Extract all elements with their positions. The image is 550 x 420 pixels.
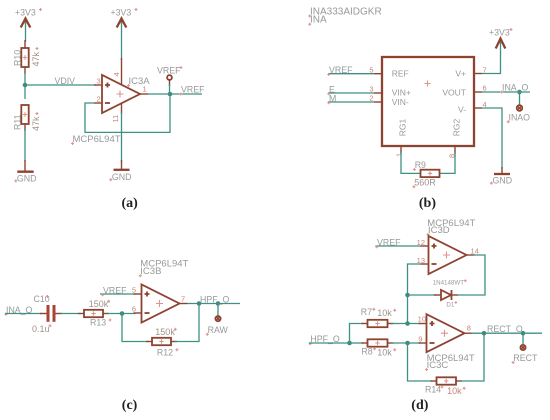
svg-text:(a): (a) [122,196,139,211]
svg-text:R14: R14 [425,384,441,394]
resistor R7 [361,307,396,327]
svg-text:IC3D: IC3D [428,225,450,236]
svg-text:2: 2 [97,95,101,104]
pin 11 wire to GND [121,112,123,162]
svg-text:V-: V- [458,105,466,115]
svg-text:R10: R10 [12,50,22,66]
wire VOUT to INA_O [482,91,530,93]
svg-text:VREF: VREF [377,237,401,247]
feedback wire to output [175,304,199,342]
svg-text:VREF: VREF [329,65,353,75]
svg-text:IC3C: IC3C [427,360,449,371]
svg-text:INA: INA [310,15,327,26]
svg-text:+3V3: +3V3 [15,8,36,18]
resistor R10 [12,40,41,74]
wire R13 to - input [107,313,136,315]
svg-text:3: 3 [369,85,373,94]
svg-text:VREF: VREF [103,285,127,295]
junction pin9 node [405,341,410,346]
svg-text:VDIV: VDIV [55,76,76,86]
op-amp IC3B [132,285,188,323]
svg-text:(c): (c) [122,398,138,413]
svg-text:GND: GND [17,173,37,183]
svg-text:V+: V+ [455,69,466,79]
wire node to diode [408,294,437,296]
wire R11 to GND [24,129,26,161]
resistor R9 [412,160,439,188]
power +3V3 P1 [15,8,42,28]
feedback wire R12 [122,314,148,342]
wire V- to GND [482,108,502,169]
resistor R8 [361,339,396,357]
svg-text:R11: R11 [12,114,22,130]
IC box U1 INA333 [369,57,486,158]
svg-text:560R: 560R [414,177,436,187]
wire RG2 to R9 [440,152,456,173]
svg-text:M: M [329,93,336,103]
junction RECT [521,331,526,336]
svg-text:1: 1 [394,153,403,157]
junction HPF split [347,341,352,346]
resistor R13 [78,299,112,328]
svg-text:VIN-: VIN- [392,97,409,107]
wire RECT drop [522,333,524,345]
wire VREF pin to output [169,84,171,94]
svg-text:11: 11 [111,115,120,123]
svg-text:MCP6L94T: MCP6L94T [73,134,121,145]
junction feedback [197,301,202,306]
svg-text:GND: GND [112,172,132,182]
junction RAW [216,301,221,306]
svg-text:10k: 10k [447,386,462,396]
diode D1 1N4148WT [433,279,467,308]
svg-text:R7: R7 [361,307,372,317]
wire INA_O to C10 [5,313,42,315]
wire V+ to +3V3 [482,42,501,74]
wire up to R7 [350,324,364,344]
svg-text:0.1u: 0.1u [32,324,50,334]
svg-text:INAO: INAO [509,112,531,122]
svg-text:HPF_O: HPF_O [200,294,229,304]
svg-text:IC3A: IC3A [129,76,151,87]
wire +3V3 to R10 [25,22,27,42]
svg-text:INA_O: INA_O [502,83,529,93]
op-amp IC3D [417,236,479,274]
svg-text:IC3B: IC3B [140,266,161,277]
svg-text:R9: R9 [415,160,426,170]
wire pin14 down to diode [458,255,485,295]
svg-text:GND: GND [493,176,513,186]
wire node to opamp + [25,84,96,86]
junction output [482,331,487,336]
svg-text:12: 12 [417,238,425,247]
pad RAW [206,316,229,336]
wire R10 to node VDIV [24,72,26,99]
svg-text:14: 14 [471,246,479,255]
svg-text:RG1: RG1 [397,118,407,136]
wire RAW drop [217,304,219,317]
capacitor C10 [32,294,62,334]
svg-text:VREF: VREF [157,66,181,76]
op-amp IC3C [418,314,473,352]
svg-text:REF: REF [392,69,409,79]
svg-text:(b): (b) [419,196,436,211]
svg-text:9: 9 [418,334,422,343]
svg-text:R8: R8 [361,346,372,356]
resistor R11 [12,105,41,131]
junction pin10 node [405,321,410,326]
svg-text:4: 4 [112,72,121,76]
svg-text:RAW: RAW [208,325,229,335]
svg-text:10k: 10k [377,348,392,358]
ground GND3 [490,167,512,186]
svg-text:RECT: RECT [513,353,538,363]
wire output HPF_O [188,303,241,305]
junction INA_O [517,90,522,95]
svg-text:150k: 150k [89,299,109,309]
feedback wire to output [460,333,484,381]
wire M to VIN- [328,101,374,103]
svg-text:(d): (d) [411,398,428,413]
wire to INAO pad [519,92,521,105]
svg-text:47k: 47k [31,51,41,66]
svg-text:7: 7 [181,294,185,303]
svg-text:+3V3: +3V3 [111,8,132,18]
wire VREF to pin12 [376,245,421,247]
svg-text:6: 6 [483,84,487,93]
svg-text:RECT_O: RECT_O [487,324,523,334]
feedback loop R14 [408,343,433,381]
svg-text:10k: 10k [377,308,392,318]
svg-text:5: 5 [132,285,136,294]
svg-text:3: 3 [97,77,101,86]
feedback wire [85,94,170,132]
svg-text:2: 2 [369,94,373,103]
wire HPF_O in [309,342,350,344]
pin symbol VREF [157,66,183,87]
svg-text:R12: R12 [157,347,173,357]
junction diode anode [405,293,410,298]
power +3V3 P3 [489,28,513,49]
svg-text:D1: D1 [446,302,454,309]
resistor R14 [425,377,466,396]
wire to R8 [350,342,364,344]
junction output [168,92,173,97]
svg-text:VOUT: VOUT [442,88,466,98]
wire R7 to pin10 [392,323,421,325]
wire VREF to + input [100,293,136,295]
svg-text:47k: 47k [31,116,41,131]
node VDIV junction [23,83,28,88]
wire R8 to pin9 [392,342,421,344]
svg-text:R13: R13 [90,318,106,328]
wire VREF to REF [328,73,374,75]
svg-text:8: 8 [467,324,471,333]
power +3V3 P2 [111,8,138,28]
svg-text:6: 6 [132,304,136,313]
wire +3V3 to opamp pin4 [121,22,123,60]
pad RECT [512,345,538,364]
ground GND2 [109,160,131,182]
svg-text:5: 5 [369,65,373,74]
wire pin13 to node [408,264,421,325]
svg-text:RG2: RG2 [452,118,462,136]
ground GND1 [14,160,36,183]
junction minus input [120,311,125,316]
wire E to VIN+ [328,92,374,94]
wire C10 to R13 [60,313,79,315]
pin 4 lead [121,58,123,85]
wire RG1 to R9 [401,152,421,173]
pad INAO [507,105,530,123]
svg-text:+3V3: +3V3 [489,28,510,38]
svg-text:VREF: VREF [181,85,205,95]
resistor R12 [146,327,178,358]
svg-text:1N4148WT: 1N4148WT [433,280,465,287]
svg-text:10: 10 [418,315,426,324]
svg-text:150k: 150k [155,327,175,337]
wire output RECT_O [471,332,542,334]
op-amp IC3A [94,75,148,123]
wire output to VREF [148,93,202,95]
